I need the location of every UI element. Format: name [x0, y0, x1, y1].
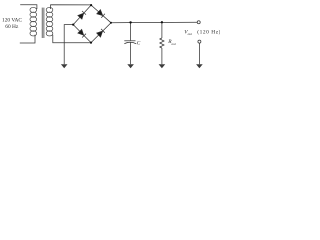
svg-text:120 VAC: 120 VAC	[2, 18, 22, 24]
svg-text:60 Hz: 60 Hz	[5, 24, 19, 30]
svg-text:C: C	[137, 40, 141, 46]
svg-text:(120 Hz): (120 Hz)	[197, 29, 220, 36]
